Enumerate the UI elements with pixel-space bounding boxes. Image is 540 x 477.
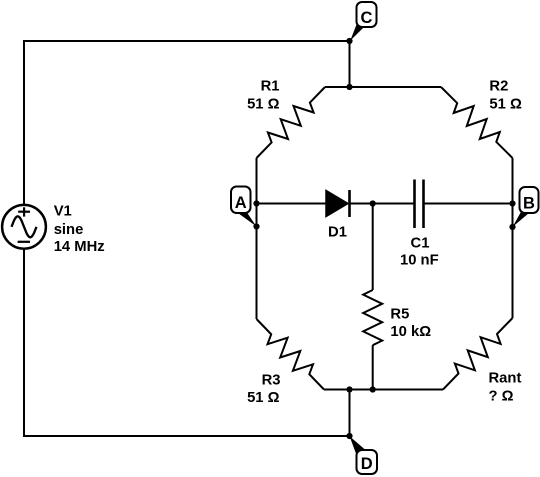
capacitor C1: [415, 180, 424, 229]
wire junction down to R5: [372, 204, 374, 291]
wire R5 to bridge bottom: [372, 345, 374, 389]
junction R5 bottom: [370, 386, 376, 392]
wire capacitor C1 to node B: [424, 203, 513, 205]
wire bridge top horizontal: [325, 86, 441, 88]
resistor R5: [363, 290, 382, 345]
junction node B callout dot: [509, 224, 515, 230]
svg-text:D1: D1: [328, 225, 347, 241]
node A: [231, 187, 256, 227]
node B: [513, 187, 539, 227]
svg-text:R2: R2: [489, 79, 508, 95]
svg-text:51 Ω: 51 Ω: [247, 390, 280, 406]
junction at node D: [346, 433, 352, 439]
wire node B down to Rant: [512, 204, 514, 319]
diode D1: [326, 190, 350, 217]
wire node A to diode D1: [257, 203, 327, 205]
svg-text:10 nF: 10 nF: [400, 252, 439, 268]
label R3 51 ohm: [247, 372, 280, 406]
svg-text:51 Ω: 51 Ω: [489, 96, 522, 112]
wire bridge bottom to node D: [349, 390, 351, 437]
node D: [350, 436, 377, 474]
voltage source V1: [2, 205, 46, 249]
svg-text:D: D: [361, 455, 373, 473]
svg-text:sine: sine: [54, 222, 84, 238]
svg-text:Rant: Rant: [489, 371, 522, 387]
resistor R1: [257, 87, 326, 158]
junction at node C: [346, 38, 352, 44]
wire node A down to R3: [256, 204, 258, 320]
wire bridge bottom horizontal: [324, 389, 443, 391]
label C1 10 nF: [400, 236, 439, 269]
svg-text:C1: C1: [411, 236, 430, 252]
svg-text:A: A: [235, 194, 247, 212]
svg-text:14 MHz: 14 MHz: [54, 239, 105, 255]
svg-text:? Ω: ? Ω: [489, 388, 514, 404]
label R2 51 ohm: [489, 79, 522, 113]
svg-text:R1: R1: [261, 79, 280, 95]
junction bridge bottom: [346, 386, 352, 392]
wire right vertical to node B: [512, 158, 514, 204]
node C: [350, 2, 376, 41]
wire left vertical to node A: [256, 158, 258, 204]
svg-text:V1: V1: [54, 203, 72, 219]
junction node B: [509, 200, 515, 206]
label V1 sine 14 MHz: [54, 203, 105, 255]
svg-text:R5: R5: [390, 306, 409, 322]
resistor R3: [257, 319, 325, 390]
wire bottom from V1 to node D: [24, 249, 350, 436]
junction diode-capacitor: [370, 200, 376, 206]
wire C to bridge top: [349, 41, 351, 87]
label Rant ? ohm: [489, 371, 522, 405]
svg-text:51 Ω: 51 Ω: [247, 96, 280, 112]
svg-text:B: B: [523, 194, 535, 212]
label R1 51 ohm: [247, 79, 280, 113]
junction node A callout dot: [253, 223, 259, 229]
svg-text:R3: R3: [262, 372, 281, 388]
label R5 10 kohm: [390, 306, 431, 340]
resistor Rant: [443, 318, 513, 390]
wire diode D1 to junction: [350, 203, 415, 205]
wire top from V1 to node C: [24, 41, 350, 204]
svg-text:C: C: [361, 9, 373, 27]
svg-text:10 kΩ: 10 kΩ: [390, 324, 431, 340]
junction node A: [253, 200, 259, 206]
resistor R2: [441, 87, 513, 158]
junction bridge top: [346, 84, 352, 90]
